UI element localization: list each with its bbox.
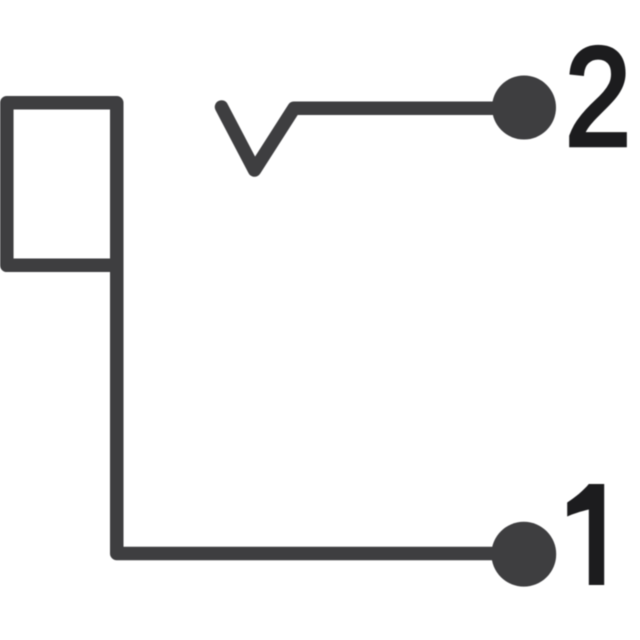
switch moving contact (V lever)	[222, 107, 295, 170]
pin 2 terminal dot	[492, 76, 556, 140]
svg-text:2: 2	[565, 19, 631, 175]
wire from moving contact to pin 2 terminal	[294, 102, 524, 116]
pin number label 1	[567, 484, 604, 585]
wire from switch body to pin 1 terminal	[117, 258, 524, 554]
pin 1 terminal dot	[491, 522, 556, 587]
switch S body (rectangle)	[7, 103, 117, 266]
